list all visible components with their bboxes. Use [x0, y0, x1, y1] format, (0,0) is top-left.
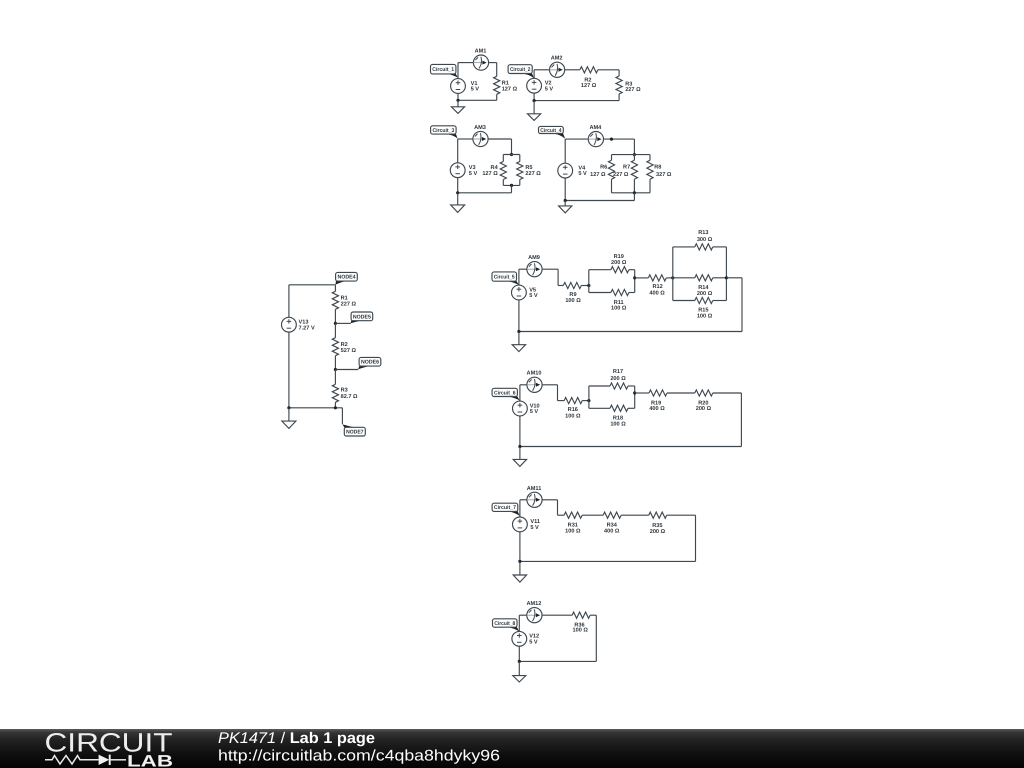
- resistor R3 left: [332, 370, 358, 408]
- svg-text:7.27 V: 7.27 V: [299, 325, 315, 331]
- junction bank bottom circuit 3: [510, 184, 513, 187]
- svg-text:R3: R3: [341, 387, 348, 393]
- junction NODE7: [334, 406, 337, 409]
- svg-text:127 Ω: 127 Ω: [502, 86, 518, 92]
- wire circuit 6 return: [520, 393, 742, 447]
- ground: [513, 561, 526, 582]
- wire V1 top to AM1: [458, 63, 473, 79]
- resistor R1: [494, 63, 518, 101]
- ammeter AM4: [588, 125, 603, 147]
- wire AM3 to bank: [488, 139, 511, 155]
- resistor R11: [589, 289, 635, 311]
- resistor R2 left: [332, 323, 356, 369]
- ground: [451, 100, 464, 113]
- wire to NODE6: [335, 369, 358, 371]
- voltage source V10: [513, 401, 540, 416]
- junction bank2 exit: [725, 276, 728, 279]
- resistor R36: [542, 612, 596, 634]
- svg-text:227 Ω: 227 Ω: [625, 87, 641, 93]
- ground: [282, 408, 296, 429]
- node label NODE5: [351, 312, 373, 323]
- wire circuit 7 return: [520, 515, 696, 561]
- junction NODE5: [334, 322, 337, 325]
- wire bank to bottom circuit 3: [511, 185, 513, 192]
- svg-text:AM4: AM4: [589, 125, 602, 131]
- svg-text:127 Ω: 127 Ω: [482, 171, 498, 177]
- svg-text:R17: R17: [613, 369, 623, 375]
- svg-text:R9: R9: [569, 292, 576, 298]
- svg-text:Circuit_2: Circuit_2: [510, 67, 531, 73]
- voltage source V11: [513, 517, 541, 532]
- svg-text:AM11: AM11: [527, 486, 542, 492]
- svg-text:400 Ω: 400 Ω: [604, 528, 620, 534]
- wire AM9 to R9: [542, 269, 558, 285]
- logo diode symbol: [99, 755, 126, 765]
- svg-text:127 Ω: 127 Ω: [590, 172, 606, 178]
- voltage source V5: [512, 285, 538, 300]
- junction circuit 3: [456, 191, 459, 194]
- resistor R8: [647, 155, 672, 193]
- svg-text:227 Ω: 227 Ω: [613, 172, 629, 178]
- node label Circuit_1: [431, 64, 458, 77]
- svg-text:AM9: AM9: [528, 255, 540, 261]
- wire bottom rail circuit 4: [612, 192, 651, 194]
- ammeter AM10: [527, 371, 543, 393]
- svg-text:100 Ω: 100 Ω: [697, 314, 713, 320]
- svg-text:100 Ω: 100 Ω: [565, 528, 581, 534]
- resistor R35: [621, 512, 695, 535]
- junction left ground: [287, 406, 290, 409]
- svg-text:R1: R1: [341, 295, 348, 301]
- node label Circuit_2: [508, 65, 534, 79]
- svg-text:327 Ω: 327 Ω: [656, 172, 672, 178]
- wire bank right rail circuit 6: [634, 386, 636, 408]
- junction on wire circuit 4: [610, 138, 613, 141]
- svg-text:200 Ω: 200 Ω: [696, 406, 712, 412]
- resistor R31: [558, 512, 583, 534]
- svg-text:100 Ω: 100 Ω: [565, 298, 581, 304]
- wire V13 top rail: [289, 285, 336, 318]
- wire circuit 5 return: [519, 278, 742, 332]
- junction bank1 exit: [633, 276, 636, 279]
- svg-text:NODE4: NODE4: [337, 275, 355, 281]
- svg-text:R13: R13: [698, 230, 708, 236]
- svg-text:R16: R16: [568, 407, 578, 413]
- svg-text:200 Ω: 200 Ω: [610, 376, 626, 382]
- wire V10 top to AM10: [520, 385, 527, 401]
- wire V5 top to AM9: [519, 269, 527, 285]
- wire bank2 left rail: [672, 247, 674, 301]
- resistor R18: [589, 405, 635, 428]
- wire V2 top to AM2: [534, 70, 549, 79]
- node label Circuit_6: [492, 388, 520, 400]
- svg-text:AM10: AM10: [527, 371, 542, 377]
- page title text: [218, 730, 375, 747]
- wire bank1 left rail: [588, 270, 590, 293]
- page url text: [218, 748, 500, 765]
- junction bank1 entry: [587, 284, 590, 287]
- svg-text:400 Ω: 400 Ω: [649, 406, 665, 412]
- svg-text:200 Ω: 200 Ω: [697, 291, 713, 297]
- resistor R12: [635, 275, 673, 297]
- wire bank2 right rail: [725, 247, 727, 301]
- junction bank bottom circuit 4: [633, 191, 636, 194]
- svg-text:Circuit_6: Circuit_6: [494, 390, 516, 396]
- ammeter AM1: [473, 49, 488, 71]
- wire V3 top to AM3: [458, 139, 473, 163]
- svg-text:Circuit_1: Circuit_1: [432, 67, 454, 73]
- wire AM11 to R31: [542, 500, 557, 515]
- svg-text:AM12: AM12: [526, 601, 541, 607]
- svg-text:200 Ω: 200 Ω: [611, 260, 627, 266]
- ammeter AM3: [473, 125, 488, 146]
- svg-text:227 Ω: 227 Ω: [341, 302, 357, 308]
- resistor R14: [673, 275, 727, 297]
- wire bank1 right rail: [634, 270, 636, 293]
- svg-text:NODE7: NODE7: [346, 430, 363, 436]
- resistor R3: [616, 70, 641, 101]
- node label NODE4: [335, 272, 357, 284]
- junction bank2 entry: [671, 276, 674, 279]
- svg-text:AM2: AM2: [551, 56, 563, 62]
- logo LAB text: [127, 752, 173, 768]
- svg-text:R12: R12: [652, 284, 662, 290]
- svg-text:527 Ω: 527 Ω: [341, 348, 357, 354]
- wire bottom circuit 4: [565, 178, 634, 201]
- wire top rail circuit 4: [612, 154, 651, 156]
- svg-text:NODE5: NODE5: [353, 314, 371, 320]
- node label Circuit_4: [539, 126, 566, 138]
- svg-text:5 V: 5 V: [471, 87, 480, 93]
- node label Circuit_8: [493, 619, 520, 632]
- svg-text:Circuit_8: Circuit_8: [494, 621, 515, 627]
- wire bottom left circuit: [289, 332, 343, 424]
- ground: [512, 332, 525, 352]
- svg-text:5 V: 5 V: [578, 171, 587, 177]
- resistor R1 left: [332, 285, 356, 324]
- resistor R5: [517, 155, 542, 186]
- ground: [559, 201, 572, 213]
- svg-text:5 V: 5 V: [469, 171, 478, 177]
- resistor R34: [582, 512, 621, 534]
- svg-text:100 Ω: 100 Ω: [573, 628, 589, 634]
- svg-text:5 V: 5 V: [530, 525, 539, 531]
- wire V4 top to AM4: [565, 139, 588, 163]
- junction circuit 5 ground: [517, 330, 520, 333]
- ground: [513, 447, 526, 467]
- junction bank exit circuit 6: [633, 391, 636, 394]
- svg-text:LAB: LAB: [127, 752, 173, 768]
- node label Circuit_5: [492, 272, 519, 285]
- node label NODE6: [358, 357, 381, 369]
- junction bank top circuit 4: [633, 153, 636, 156]
- ammeter AM11: [527, 486, 542, 508]
- svg-text:400 Ω: 400 Ω: [649, 291, 665, 297]
- junction circuit 1: [456, 99, 459, 102]
- resistor R15: [673, 297, 727, 319]
- voltage source V1: [451, 79, 480, 94]
- svg-text:5 V: 5 V: [545, 86, 554, 92]
- svg-text:227 Ω: 227 Ω: [525, 171, 541, 177]
- voltage source V4: [558, 163, 587, 178]
- resistor R16: [558, 398, 589, 420]
- svg-text:PK1471 / Lab 1 page: PK1471 / Lab 1 page: [218, 730, 375, 747]
- svg-text:Circuit_3: Circuit_3: [432, 128, 454, 134]
- svg-text:NODE6: NODE6: [361, 360, 379, 366]
- svg-text:Circuit_7: Circuit_7: [494, 505, 516, 511]
- svg-text:5 V: 5 V: [529, 639, 538, 645]
- wire V11 top to AM11: [520, 500, 527, 517]
- svg-text:R2: R2: [341, 342, 348, 348]
- svg-text:100 Ω: 100 Ω: [611, 306, 627, 312]
- svg-text:5 V: 5 V: [530, 409, 539, 415]
- node label Circuit_3: [431, 126, 458, 139]
- svg-text:82.7 Ω: 82.7 Ω: [341, 394, 358, 400]
- junction NODE6: [334, 368, 337, 371]
- resistor R19: [589, 254, 635, 273]
- resistor R17: [589, 369, 635, 389]
- svg-text:R8: R8: [654, 165, 661, 171]
- wire bottom circuit 1: [458, 93, 497, 100]
- voltage source V12: [512, 631, 539, 646]
- resistor R6: [590, 155, 614, 193]
- wire bank to bottom circuit 4: [633, 193, 635, 201]
- junction circuit 4: [564, 199, 567, 202]
- svg-text:Circuit_5: Circuit_5: [494, 275, 515, 281]
- wire bottom circuit 3: [458, 178, 512, 193]
- wire bottom rail circuit 3: [503, 184, 520, 186]
- wire AM10 to R16: [542, 385, 557, 401]
- resistor R7: [613, 155, 637, 193]
- ground: [528, 101, 541, 121]
- voltage source V2: [527, 78, 554, 93]
- svg-text:R7: R7: [623, 165, 630, 171]
- junction circuit 8 ground: [518, 660, 521, 663]
- wire to NODE5: [335, 322, 350, 324]
- resistor R9: [558, 282, 589, 304]
- wire V12 top to AM12: [519, 615, 527, 631]
- node label Circuit_7: [492, 503, 520, 516]
- junction bank entry circuit 6: [587, 399, 590, 402]
- svg-text:R6: R6: [600, 165, 607, 171]
- svg-text:100 Ω: 100 Ω: [565, 414, 581, 420]
- ground: [513, 661, 526, 682]
- resistor R13: [673, 230, 727, 250]
- svg-text:AM3: AM3: [474, 125, 486, 131]
- junction circuit 2: [533, 99, 536, 102]
- svg-text:R35: R35: [652, 523, 662, 529]
- junction circuit 6 ground: [518, 445, 521, 448]
- wire top rail circuit 3: [503, 154, 520, 156]
- wire bank left rail circuit 6: [588, 386, 590, 408]
- resistor R2: [565, 67, 619, 90]
- node label NODE7: [342, 424, 365, 436]
- ammeter AM12: [526, 601, 542, 623]
- svg-text:300 Ω: 300 Ω: [697, 237, 713, 243]
- wire bottom circuit 2: [534, 93, 619, 101]
- wire AM4 to bank: [604, 139, 635, 155]
- voltage source V13: [282, 317, 315, 332]
- resistor R4: [482, 155, 506, 186]
- svg-text:127 Ω: 127 Ω: [581, 83, 597, 89]
- wire circuit 8 return: [519, 615, 596, 661]
- resistor R19 series: [635, 390, 695, 412]
- ground: [451, 193, 465, 213]
- logo resistor symbol: [45, 756, 99, 764]
- wire AM1 to R1: [489, 62, 497, 64]
- svg-text:200 Ω: 200 Ω: [650, 529, 666, 535]
- svg-text:http://circuitlab.com/c4qba8hd: http://circuitlab.com/c4qba8hdyky96: [218, 748, 500, 765]
- junction circuit 7 ground: [518, 560, 521, 563]
- svg-text:5 V: 5 V: [529, 293, 538, 299]
- svg-text:100 Ω: 100 Ω: [610, 422, 626, 428]
- ammeter AM2: [550, 56, 565, 78]
- resistor R20: [695, 390, 742, 412]
- junction bank top circuit 3: [510, 153, 513, 156]
- voltage source V3: [450, 163, 477, 178]
- ammeter AM9: [527, 255, 542, 277]
- svg-text:Circuit_4: Circuit_4: [540, 128, 561, 134]
- CircuitLab logo wordmark: [45, 727, 173, 757]
- svg-text:AM1: AM1: [475, 49, 487, 55]
